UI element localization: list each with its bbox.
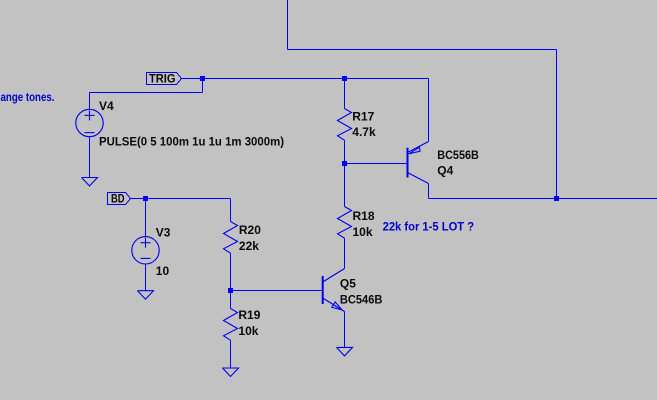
wire TRIG net	[181, 78, 429, 80]
wire	[145, 199, 147, 237]
voltage source V4	[76, 109, 103, 136]
wire	[344, 312, 346, 348]
wire	[428, 184, 430, 199]
junction	[554, 196, 559, 201]
svg-text:PULSE(0 5 100m 1u 1u 1m 3000m): PULSE(0 5 100m 1u 1u 1m 3000m)	[99, 134, 284, 148]
wire BD net	[131, 198, 231, 200]
svg-text:22k: 22k	[239, 239, 259, 253]
wire	[202, 79, 204, 93]
ground	[138, 291, 154, 300]
svg-text:BC556B: BC556B	[437, 148, 479, 162]
junction	[228, 288, 233, 293]
node TRIG flag	[147, 71, 182, 85]
wire	[428, 79, 430, 142]
svg-text:BC546B: BC546B	[340, 293, 383, 307]
svg-text:10k: 10k	[238, 324, 258, 338]
svg-text:R19: R19	[238, 308, 260, 322]
resistor R18	[338, 164, 352, 269]
svg-text:R20: R20	[239, 223, 261, 237]
wire	[90, 92, 203, 94]
ground	[82, 178, 98, 187]
transistor Q4	[408, 142, 429, 184]
transistor Q5	[323, 269, 345, 312]
ground	[223, 368, 239, 377]
wire	[287, 0, 289, 50]
svg-text:22k for 1-5 LOT ?: 22k for 1-5 LOT ?	[383, 219, 475, 233]
wire base of Q5	[231, 290, 323, 292]
wire	[556, 50, 558, 199]
wire	[89, 137, 91, 178]
resistor R19	[224, 291, 238, 369]
svg-text:R17: R17	[352, 109, 374, 123]
svg-text:V3: V3	[156, 226, 171, 240]
voltage source V3	[132, 237, 159, 264]
svg-text:10: 10	[156, 264, 170, 278]
svg-text:Q4: Q4	[437, 163, 453, 177]
wire	[429, 198, 657, 200]
svg-text:10k: 10k	[353, 225, 373, 239]
ground	[337, 347, 353, 356]
wire	[89, 93, 91, 110]
wire	[288, 49, 557, 51]
svg-text:ange tones.: ange tones.	[1, 90, 55, 104]
svg-text:TRIG: TRIG	[149, 71, 176, 85]
resistor R17	[338, 79, 352, 164]
wire	[145, 264, 147, 291]
svg-text:V4: V4	[99, 99, 114, 113]
wire base of Q4	[345, 163, 408, 165]
junction	[342, 76, 347, 81]
resistor R20	[224, 199, 238, 291]
svg-text:Q5: Q5	[340, 276, 356, 290]
junction	[200, 76, 205, 81]
svg-text:BD: BD	[111, 191, 125, 205]
junction	[342, 161, 347, 166]
junction	[143, 196, 148, 201]
svg-text:R18: R18	[353, 209, 375, 223]
node BD flag	[108, 191, 131, 205]
svg-text:4.7k: 4.7k	[352, 125, 376, 139]
